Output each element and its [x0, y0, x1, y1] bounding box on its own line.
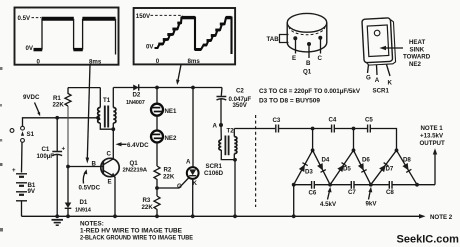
- wire: T2 bottom to ground: [234, 160, 236, 217]
- wire: base junction to Q1 base: [68, 166, 103, 168]
- svg-text:C7: C7: [348, 189, 356, 196]
- svg-text:TOWARD: TOWARD: [403, 54, 431, 61]
- node: top row 2: [352, 127, 356, 131]
- svg-text:22K: 22K: [163, 173, 175, 180]
- svg-text:NOTE 2: NOTE 2: [430, 214, 453, 221]
- node: gate junction: [155, 186, 159, 190]
- capacitor C3: [273, 117, 281, 133]
- svg-text:0V: 0V: [146, 43, 154, 50]
- Q1 package (TO-39 can, top right): [267, 13, 327, 75]
- svg-text:8ms: 8ms: [89, 59, 102, 66]
- wire: gate junction to SCR gate: [157, 178, 189, 189]
- heat-sink arrow: [383, 47, 403, 49]
- node: multiplier ground: [292, 214, 296, 218]
- node: C1 ground: [55, 214, 59, 218]
- battery B1: [12, 167, 36, 201]
- svg-text:HEAT: HEAT: [409, 39, 426, 46]
- wire: rail to SCR anode: [192, 88, 194, 168]
- svg-text:350V: 350V: [233, 102, 248, 109]
- NOTE 2 arrow: [419, 214, 453, 221]
- capacitor C1: [37, 118, 66, 217]
- svg-text:D3 TO D8 = BUY509: D3 TO D8 = BUY509: [259, 99, 321, 105]
- node: T1 bottom / collector: [111, 127, 115, 131]
- SCR1 package pins G A K: [368, 65, 369, 74]
- 9kV label with arrow: [366, 187, 378, 208]
- wire: R3 to ground: [156, 210, 158, 217]
- svg-text:C5: C5: [365, 117, 373, 124]
- SCR1 symbol: [186, 159, 224, 187]
- diode D6: [354, 150, 371, 184]
- svg-text:D2: D2: [133, 92, 141, 99]
- capacitor C8: [386, 181, 394, 196]
- svg-text:+: +: [62, 146, 66, 153]
- svg-text:NE2: NE2: [409, 61, 422, 68]
- node: C1 tap on rail: [55, 116, 59, 120]
- node: SCR ground: [191, 214, 195, 218]
- waveform box W1 frame: [15, 8, 119, 66]
- waveform trace (0.5V square wave): [34, 19, 116, 55]
- svg-text:Q1: Q1: [303, 69, 312, 76]
- neon lamp NE2: [151, 131, 177, 143]
- 9VDC label with arrow to rail: [23, 94, 40, 116]
- node: base junction: [66, 165, 70, 169]
- resistor R2: [154, 166, 175, 181]
- wire: T1 to Q1 collector: [112, 129, 114, 159]
- diode D1: [65, 167, 92, 217]
- capacitor C2: [217, 88, 252, 126]
- parts note text: [259, 89, 360, 105]
- wire: NE2 to R2: [156, 143, 158, 166]
- wire: NE1 to NE2: [156, 116, 158, 131]
- svg-text:4.5kV: 4.5kV: [320, 201, 337, 208]
- wire: R2 to gate junction: [156, 181, 158, 197]
- svg-text:NOTES:: NOTES:: [80, 220, 104, 227]
- waveform box W2 frame: [134, 8, 236, 65]
- svg-text:OUTPUT: OUTPUT: [420, 140, 445, 147]
- svg-text:+: +: [12, 167, 16, 174]
- output arrow NOTE 1: [420, 125, 445, 185]
- diode D7: [371, 150, 397, 184]
- wire: R1 top to T1 feedback top: [68, 87, 100, 89]
- svg-text:D8: D8: [403, 156, 411, 163]
- svg-text:A: A: [213, 122, 218, 129]
- wire: S1 to battery: [21, 142, 24, 172]
- wire: R1 bottom down to base junction (crosses rail): [67, 106, 69, 167]
- ground rail (bottom): [22, 215, 421, 217]
- pointer arrow from W1 to Q1 base: [86, 65, 91, 164]
- diode D3: [294, 150, 314, 184]
- node: SCR anode on rail: [191, 86, 195, 90]
- svg-text:S1: S1: [27, 131, 35, 138]
- node: T2 bottom: [233, 158, 237, 162]
- ground symbol: [52, 220, 64, 225]
- svg-text:0: 0: [37, 59, 41, 66]
- svg-text:NE2: NE2: [165, 135, 178, 142]
- svg-text:8ms: 8ms: [188, 58, 201, 65]
- node: emitter ground: [113, 214, 117, 218]
- svg-text:Q1: Q1: [130, 160, 139, 167]
- capacitor C4: [329, 117, 337, 133]
- svg-text:NE1: NE1: [165, 108, 178, 115]
- wire: rail to NE1: [156, 88, 158, 104]
- svg-text:1-RED HV WIRE TO IMAGE TUBE: 1-RED HV WIRE TO IMAGE TUBE: [80, 227, 182, 234]
- 6.4VDC label with arrow: [116, 142, 150, 149]
- diode D8: [397, 150, 418, 184]
- svg-text:D4: D4: [322, 156, 330, 163]
- svg-text:C3: C3: [273, 117, 281, 124]
- svg-text:D7: D7: [386, 166, 394, 173]
- svg-text:B: B: [92, 160, 97, 167]
- notes text block: [80, 220, 193, 241]
- node A: [219, 123, 223, 127]
- svg-text:TAB: TAB: [267, 36, 280, 43]
- svg-text:G: G: [177, 183, 182, 190]
- svg-text:C6: C6: [309, 190, 317, 197]
- resistor R3: [142, 196, 161, 211]
- svg-text:A: A: [375, 77, 380, 84]
- Q1 can pins E B C: [293, 36, 297, 40]
- svg-text:C106D: C106D: [204, 170, 224, 177]
- diode D4: [313, 150, 331, 184]
- wire: battery to ground rail: [21, 201, 23, 217]
- svg-text:A: A: [186, 159, 191, 166]
- waveform trace (150V staircase): [155, 18, 232, 54]
- switch S1: [10, 126, 34, 142]
- svg-text:NOTE 1: NOTE 1: [421, 125, 444, 132]
- node: R3 ground: [155, 214, 159, 218]
- node: NE column on rail: [155, 86, 159, 90]
- svg-text:22K: 22K: [53, 102, 65, 109]
- svg-text:0.5VDC: 0.5VDC: [79, 184, 101, 191]
- svg-text:150V: 150V: [136, 13, 151, 20]
- svg-text:G: G: [366, 75, 371, 82]
- svg-text:D3: D3: [305, 169, 313, 176]
- wire: multiplier to ground rail: [293, 185, 295, 217]
- HV rail (T1 secondary top): [113, 87, 222, 89]
- svg-text:+13.5kV: +13.5kV: [420, 133, 444, 140]
- edge specks: [0, 67, 3, 70]
- wire: [279, 128, 331, 130]
- svg-text:D6: D6: [362, 156, 370, 163]
- svg-text:C2: C2: [236, 88, 244, 95]
- wire: Q1 emitter to ground: [114, 177, 116, 216]
- peak nodes: [311, 148, 315, 152]
- wire: SCR cathode to ground: [192, 179, 194, 216]
- svg-text:E: E: [292, 55, 296, 62]
- svg-text:E: E: [108, 178, 112, 185]
- svg-text:2N2219A: 2N2219A: [123, 167, 148, 173]
- svg-text:9kV: 9kV: [366, 201, 378, 208]
- resistor R1: [53, 88, 72, 109]
- svg-text:9V: 9V: [28, 188, 36, 195]
- svg-text:C4: C4: [329, 117, 337, 124]
- svg-text:C8: C8: [386, 189, 394, 196]
- svg-text:2-BLACK GROUND WIRE TO IMAGE T: 2-BLACK GROUND WIRE TO IMAGE TUBE: [80, 234, 193, 241]
- transformer T2: [219, 125, 237, 160]
- diode D2: [126, 84, 145, 106]
- svg-text:0: 0: [156, 58, 160, 65]
- transformer T1: [98, 88, 116, 130]
- node: T1 tap end of rail: [96, 116, 100, 120]
- svg-text:9VDC: 9VDC: [23, 94, 40, 101]
- svg-text:0.5V: 0.5V: [18, 15, 32, 22]
- svg-text:C: C: [107, 151, 112, 158]
- bottom row nodes: [292, 183, 296, 187]
- pointer arrow from W2 to HV rail: [176, 65, 181, 85]
- svg-text:1N4007: 1N4007: [126, 100, 145, 106]
- wire: left 9V rail: [23, 118, 99, 127]
- svg-text:B: B: [306, 60, 311, 67]
- svg-text:T2: T2: [227, 128, 235, 135]
- svg-text:22K: 22K: [142, 204, 154, 211]
- svg-text:1N914: 1N914: [75, 207, 92, 213]
- peak verticals: [312, 129, 314, 151]
- TAB on Q1 can: [280, 35, 289, 43]
- svg-text:100µF: 100µF: [37, 153, 55, 160]
- svg-text:D5: D5: [343, 166, 351, 173]
- svg-text:C3 TO C8 = 220pF TO 0.001µF/5k: C3 TO C8 = 220pF TO 0.001µF/5kV: [259, 89, 360, 95]
- svg-text:0V: 0V: [26, 45, 34, 52]
- svg-text:T1: T1: [103, 97, 111, 104]
- 4.5kV label with arrow: [320, 187, 337, 208]
- svg-text:SCR1: SCR1: [373, 87, 390, 94]
- 0.5VDC label with curved arrow to base: [79, 169, 101, 191]
- svg-text:D1: D1: [80, 199, 88, 206]
- svg-text:SINK: SINK: [410, 46, 425, 53]
- wire: [335, 128, 367, 130]
- svg-text:SCR1: SCR1: [206, 163, 223, 170]
- wire: top row to last peak: [371, 129, 397, 151]
- svg-text:SeekIC.com: SeekIC.com: [397, 234, 460, 246]
- SCR1 package (top right): [362, 18, 431, 95]
- node: D1 ground: [66, 214, 70, 218]
- node: top row 1: [311, 127, 315, 131]
- dashed separator line: [255, 115, 257, 207]
- neon lamp NE1: [151, 104, 177, 116]
- multiplier bottom row: [294, 184, 311, 186]
- capacitor C5: [365, 117, 373, 133]
- multiplier top row wire: [234, 128, 275, 130]
- capacitor C6: [309, 181, 317, 197]
- node: T2 ground: [233, 214, 237, 218]
- svg-text:K: K: [388, 79, 393, 86]
- svg-text:C: C: [318, 55, 323, 62]
- diode D5: [330, 150, 353, 184]
- transistor Q1: [92, 151, 148, 186]
- svg-text:6.4VDC: 6.4VDC: [127, 142, 149, 149]
- capacitor C7: [348, 181, 356, 196]
